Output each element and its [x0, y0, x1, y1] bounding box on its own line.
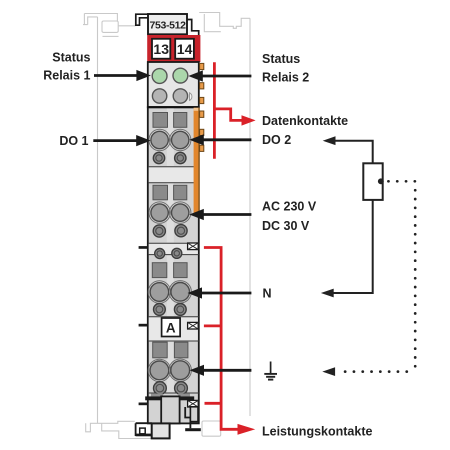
- svg-text:N: N: [263, 286, 272, 300]
- svg-text:753-512: 753-512: [150, 20, 187, 32]
- svg-text:AC 230 V: AC 230 V: [262, 199, 317, 213]
- svg-text:A: A: [166, 320, 176, 335]
- svg-text:DO 1: DO 1: [59, 134, 88, 148]
- svg-text:Datenkontakte: Datenkontakte: [262, 114, 348, 128]
- svg-text:13: 13: [153, 41, 169, 57]
- svg-text:Leistungskontakte: Leistungskontakte: [262, 424, 372, 438]
- svg-text:DC 30 V: DC 30 V: [262, 219, 310, 233]
- svg-text:Relais 1: Relais 1: [43, 69, 90, 83]
- svg-text:14: 14: [177, 41, 193, 57]
- svg-text:Status: Status: [52, 51, 90, 65]
- svg-text:Relais 2: Relais 2: [262, 70, 309, 84]
- svg-text:Status: Status: [262, 52, 300, 66]
- svg-text:DO 2: DO 2: [262, 133, 291, 147]
